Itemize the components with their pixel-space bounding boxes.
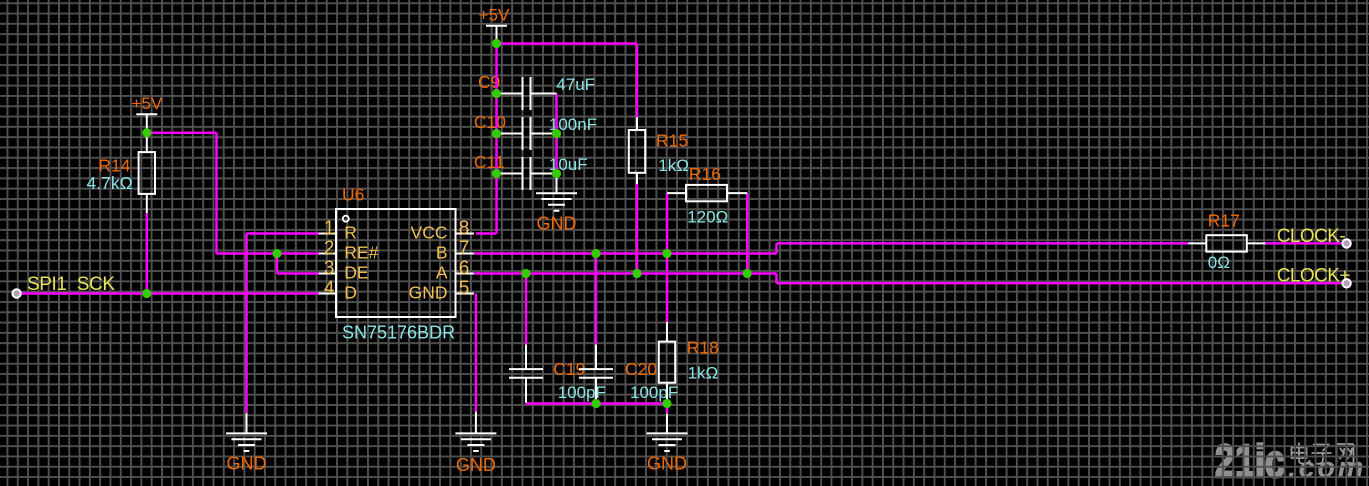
svg-text:SN75176BDR: SN75176BDR	[342, 323, 455, 343]
port pin CLOCK+	[1342, 279, 1350, 287]
svg-text:4.7kΩ: 4.7kΩ	[87, 173, 133, 193]
svg-text:R17: R17	[1208, 211, 1240, 231]
port pin SPI1_SCK	[12, 289, 20, 297]
capacitor C11	[497, 157, 557, 190]
junction R14 top	[142, 128, 151, 137]
svg-text:+5V: +5V	[479, 6, 510, 25]
resistor R18	[659, 322, 675, 404]
svg-text:U6: U6	[342, 184, 364, 204]
capacitor C19	[509, 345, 543, 403]
svg-text:1kΩ: 1kΩ	[658, 156, 689, 175]
wire R18 bottom to ground	[666, 404, 669, 414]
wire +5V top horizontal	[497, 42, 638, 45]
wire pin 5 GND down	[475, 294, 478, 412]
power +5V left	[132, 94, 163, 114]
junction C20 bottom	[591, 399, 600, 408]
svg-text:120Ω: 120Ω	[687, 207, 728, 226]
wire B down to R18 top	[666, 254, 669, 323]
wire to pin 3 DE	[277, 272, 319, 275]
wire to pin 2 RE#	[217, 252, 319, 255]
capacitor C9	[497, 77, 557, 110]
svg-text:GND: GND	[227, 454, 267, 474]
svg-text:6: 6	[459, 258, 470, 279]
svg-text:+5V: +5V	[132, 94, 163, 113]
junction C9 left	[492, 89, 501, 98]
wire pin 8 VCC	[476, 232, 497, 235]
wire B net jog up	[775, 243, 778, 253]
wire to pin 1 R	[247, 232, 319, 235]
wire A net to CLOCK+ port	[777, 282, 1343, 285]
svg-text:5: 5	[459, 278, 470, 299]
wire +5V vertical rail to VCC	[495, 44, 498, 234]
svg-text:R16: R16	[689, 164, 721, 184]
svg-text:R: R	[344, 222, 357, 242]
svg-text:R18: R18	[687, 337, 719, 357]
junction R14 bottom SPI1_SCK	[142, 289, 151, 298]
svg-text:GND: GND	[647, 454, 687, 474]
wire A net jog down	[775, 274, 778, 284]
svg-text:3: 3	[324, 258, 335, 279]
junction R18 bottom	[662, 399, 671, 408]
junction B R16 R18	[662, 249, 671, 258]
wire C19 bottom corner	[525, 402, 528, 405]
svg-text:R15: R15	[656, 131, 688, 151]
wire +5V node right from R14 top	[147, 131, 217, 134]
watermark dianziwang glyphs	[1292, 443, 1354, 464]
resistor R17	[1188, 235, 1265, 251]
resistor R15	[629, 117, 645, 184]
ground symbol middle	[455, 412, 496, 476]
svg-text:2: 2	[324, 238, 335, 259]
svg-text:B: B	[436, 242, 448, 262]
capacitor C20	[579, 345, 613, 404]
wire down to R15 top	[636, 44, 639, 118]
wire R17 to CLOCK- port	[1265, 242, 1342, 245]
svg-text:100pF: 100pF	[630, 383, 678, 402]
svg-text:C11: C11	[474, 152, 505, 172]
svg-text:0Ω: 0Ω	[1208, 253, 1230, 272]
wire branch RE# to DE	[276, 254, 279, 274]
svg-text:DE: DE	[344, 262, 368, 282]
wire A net from pin 6	[474, 272, 777, 275]
wire R14 bottom to SPI1_SCK	[146, 213, 149, 294]
wire cap bottom rail	[526, 402, 667, 405]
junction B C20	[591, 249, 600, 258]
svg-text:4: 4	[324, 278, 335, 299]
wire R16 left down to B	[666, 193, 669, 253]
junction C10 left	[492, 129, 501, 138]
svg-text:GND: GND	[409, 282, 448, 302]
svg-text:100pF: 100pF	[558, 383, 606, 402]
svg-text:1: 1	[324, 218, 335, 239]
svg-text:8: 8	[459, 218, 470, 239]
svg-text:GND: GND	[456, 455, 496, 475]
junction C11 right	[552, 169, 561, 178]
wire B net to R17	[777, 242, 1189, 245]
resistor R14	[139, 114, 155, 213]
power +5V top	[479, 6, 510, 44]
junction C11 left	[492, 169, 501, 178]
wire down to RE# row	[215, 133, 218, 254]
wire SPI1_SCK net: port to pin 4 D	[21, 292, 319, 295]
ground symbol right	[647, 414, 688, 474]
svg-text:C20: C20	[625, 359, 657, 379]
IC U6 SN75176BDR	[319, 209, 474, 317]
svg-text:47uF: 47uF	[556, 75, 595, 94]
capacitor C10	[497, 117, 557, 150]
svg-text:C10: C10	[474, 112, 506, 132]
svg-text:D: D	[344, 282, 357, 302]
wire R16 right down to A	[746, 193, 749, 273]
junction C10 right	[552, 129, 561, 138]
svg-text:VCC: VCC	[411, 222, 448, 242]
svg-text:A: A	[436, 262, 448, 282]
wire B down to C20	[595, 254, 598, 345]
ground symbol left	[226, 413, 267, 473]
svg-text:SPI1_SCK: SPI1_SCK	[27, 274, 115, 295]
wire B net from pin 7	[474, 252, 777, 255]
junction +5V rail	[492, 39, 501, 48]
port pin CLOCK-	[1342, 239, 1350, 247]
wire R15 bottom to A net	[636, 184, 639, 274]
junction A R16 right	[743, 269, 752, 278]
svg-text:7: 7	[459, 238, 470, 259]
wire pin 1 R down to ground	[245, 234, 248, 414]
junction A R15	[632, 269, 641, 278]
junction A C19	[521, 269, 530, 278]
wire A down to C19	[525, 274, 528, 345]
svg-text:GND: GND	[537, 214, 577, 234]
svg-text:1kΩ: 1kΩ	[688, 364, 719, 383]
resistor R16	[667, 185, 747, 201]
ground symbol decoupling	[536, 174, 577, 234]
svg-text:RE#: RE#	[344, 242, 378, 262]
wire decoupling caps right side	[555, 94, 558, 174]
junction RE#-DE	[272, 249, 281, 258]
